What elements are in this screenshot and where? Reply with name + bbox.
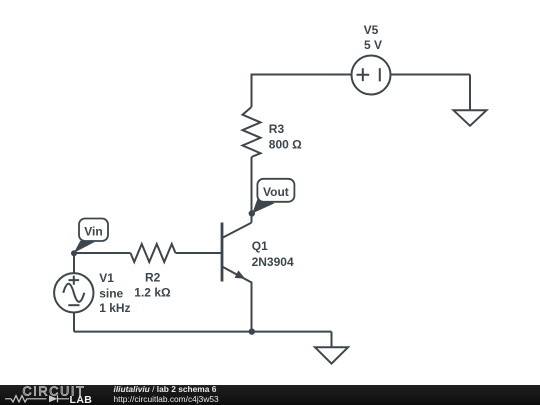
svg-text:2N3904: 2N3904 bbox=[252, 255, 294, 269]
svg-text:V1: V1 bbox=[99, 271, 114, 285]
svg-text:Q1: Q1 bbox=[252, 239, 268, 253]
node Vout (junction dot) bbox=[249, 210, 255, 216]
flag Vin box bbox=[79, 219, 108, 242]
wire: V1 bottom terminal down to ground rail bbox=[73, 313, 75, 332]
node: emitter junction dot on ground rail bbox=[249, 328, 255, 334]
V1 sine wave symbol bbox=[63, 284, 84, 302]
resistor R3 bbox=[243, 107, 261, 157]
logo diode triangle bbox=[49, 395, 58, 402]
svg-text:1.2 kΩ: 1.2 kΩ bbox=[134, 285, 171, 299]
wire: collector rail top, up from R3 and across to V5 / ground bbox=[252, 75, 471, 108]
wire: bottom ground rail bbox=[74, 331, 332, 333]
svg-text:http://circuitlab.com/c4j3w53: http://circuitlab.com/c4j3w53 bbox=[114, 394, 220, 404]
wire: ground rail down to bottom ground symbol bbox=[331, 332, 333, 348]
svg-text:V5: V5 bbox=[364, 23, 379, 37]
wire: Vin node down to V1 top terminal bbox=[73, 253, 75, 273]
logo resistor squiggle bbox=[5, 396, 47, 402]
flag Vin pointer bbox=[74, 241, 96, 253]
svg-text:R2: R2 bbox=[145, 271, 161, 285]
V1 minus sign bbox=[68, 304, 79, 306]
resistor R2 bbox=[131, 244, 176, 262]
V5 minus terminal bar bbox=[379, 68, 381, 81]
svg-text:LAB: LAB bbox=[70, 394, 93, 405]
svg-text:iliutaliviu / lab 2 schema 6: iliutaliviu / lab 2 schema 6 bbox=[114, 384, 217, 394]
voltage source V5 (DC, circle body) bbox=[352, 56, 391, 95]
wire: V5 to top-right ground bbox=[469, 75, 471, 111]
logo diode cathode bar and lead bbox=[58, 395, 70, 402]
V1 plus sign bbox=[69, 276, 80, 285]
voltage source V1 (sine, circle body) bbox=[54, 273, 93, 312]
svg-text:5 V: 5 V bbox=[364, 38, 382, 52]
svg-text:1 kHz: 1 kHz bbox=[99, 301, 130, 315]
svg-text:R3: R3 bbox=[269, 122, 285, 136]
transistor Q1 emitter lead bbox=[222, 267, 252, 332]
svg-text:Vin: Vin bbox=[84, 225, 102, 239]
flag Vout box bbox=[257, 179, 294, 202]
transistor Q1 base bar bbox=[221, 223, 224, 282]
wire: R2 right lead to Q1 base bbox=[176, 252, 223, 254]
node Vin (junction dot) bbox=[71, 250, 77, 256]
flag Vout pointer bbox=[252, 198, 274, 214]
svg-text:Vout: Vout bbox=[263, 185, 289, 199]
V5 plus terminal symbol bbox=[357, 68, 370, 81]
ground (bottom) bbox=[315, 347, 348, 363]
wire: R3 bottom down to Q1 collector bbox=[251, 157, 253, 223]
transistor Q1 collector lead bbox=[222, 223, 252, 238]
ground (top right) bbox=[454, 110, 487, 126]
transistor Q1 emitter arrow bbox=[235, 270, 246, 278]
svg-text:800 Ω: 800 Ω bbox=[269, 138, 302, 152]
footer bar bbox=[0, 385, 540, 405]
wire: Vin node to R2 left lead bbox=[74, 252, 131, 254]
svg-text:sine: sine bbox=[99, 287, 123, 301]
